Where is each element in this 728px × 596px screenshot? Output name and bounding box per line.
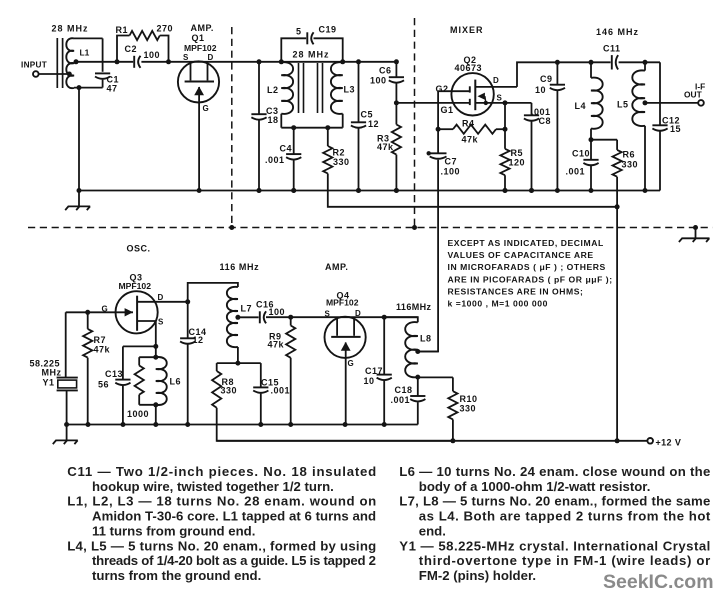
svg-text:11 turns from ground end.: 11 turns from ground end.	[92, 523, 255, 538]
svg-text:MPF102: MPF102	[119, 281, 152, 291]
svg-text:VALUES OF CAPACITANCE ARE: VALUES OF CAPACITANCE ARE	[448, 250, 594, 260]
svg-text:270: 270	[157, 24, 174, 34]
svg-text:C2: C2	[125, 44, 138, 54]
svg-text:330: 330	[221, 386, 238, 396]
svg-text:47k: 47k	[94, 345, 111, 355]
svg-text:MIXER: MIXER	[450, 25, 484, 35]
svg-text:.100: .100	[441, 167, 461, 177]
svg-text:as L4. Both are tapped 2 turns: as L4. Both are tapped 2 turns from the …	[419, 509, 711, 524]
svg-text:G2: G2	[436, 84, 449, 94]
svg-text:.001: .001	[265, 155, 285, 165]
svg-text:R5: R5	[511, 148, 524, 158]
svg-text:S: S	[183, 53, 189, 62]
svg-text:R2: R2	[333, 148, 346, 158]
svg-text:47k: 47k	[377, 142, 394, 152]
svg-text:C18: C18	[395, 385, 413, 395]
svg-text:330: 330	[622, 160, 639, 170]
svg-text:C19: C19	[319, 25, 337, 35]
svg-text:D: D	[493, 76, 499, 85]
svg-text:Y1: Y1	[43, 378, 55, 388]
svg-text:R4: R4	[462, 119, 475, 129]
svg-text:R1: R1	[116, 25, 129, 35]
svg-text:R7: R7	[94, 335, 107, 345]
svg-text:G1: G1	[441, 105, 454, 115]
svg-text:D: D	[208, 53, 214, 62]
svg-text:C11: C11	[603, 44, 621, 54]
svg-text:D: D	[355, 309, 361, 318]
svg-text:C17: C17	[365, 366, 383, 376]
svg-text:+12 V: +12 V	[656, 438, 682, 448]
svg-text:.001: .001	[271, 386, 291, 396]
svg-text:C4: C4	[280, 144, 293, 154]
svg-text:L7: L7	[241, 304, 253, 314]
svg-text:L3: L3	[344, 85, 356, 95]
svg-text:ARE IN PICOFARADS ( pF OR: ARE IN PICOFARADS ( pF OR μμF );	[448, 274, 613, 284]
svg-text:116MHz: 116MHz	[396, 302, 432, 312]
svg-text:120: 120	[509, 158, 526, 168]
svg-text:RESISTANCES ARE IN OHMS;: RESISTANCES ARE IN OHMS;	[448, 286, 584, 296]
svg-text:threads of 1/4-20 bolt as a gu: threads of 1/4-20 bolt as a guide. L5 is…	[92, 553, 376, 568]
svg-text:116 MHz: 116 MHz	[220, 262, 260, 272]
svg-text:Q1: Q1	[192, 33, 205, 43]
svg-text:15: 15	[670, 124, 681, 134]
svg-text:OUT: OUT	[684, 90, 703, 100]
svg-text:5: 5	[296, 27, 302, 37]
svg-text:1000: 1000	[127, 409, 149, 419]
svg-text:EXCEPT AS INDICATED, DECIMAL: EXCEPT AS INDICATED, DECIMAL	[448, 238, 604, 248]
svg-text:12: 12	[368, 119, 379, 129]
svg-text:L4, L5 — 5 turns No. 20 enam.,: L4, L5 — 5 turns No. 20 enam., formed by…	[67, 538, 376, 553]
svg-text:47: 47	[107, 84, 118, 94]
svg-text:G: G	[348, 359, 355, 368]
svg-text:MPF102: MPF102	[184, 43, 217, 53]
svg-text:OSC.: OSC.	[127, 244, 151, 254]
svg-text:MPF102: MPF102	[326, 298, 359, 308]
svg-text:L4: L4	[575, 101, 587, 111]
svg-text:k =1000 , M=1 000 000: k =1000 , M=1 000 000	[448, 299, 548, 309]
svg-text:third-overtone type in FM-1 (w: third-overtone type in FM-1 (wire leads)…	[419, 553, 710, 568]
svg-text:end.: end.	[419, 523, 446, 538]
svg-text:INPUT: INPUT	[21, 61, 47, 70]
svg-text:MHz: MHz	[42, 368, 62, 378]
svg-text:C7: C7	[445, 157, 458, 167]
svg-text:18: 18	[268, 115, 279, 125]
svg-text:330: 330	[333, 157, 350, 167]
svg-text:C11 — Two 1/2-inch pieces. No.: C11 — Two 1/2-inch pieces. No. 18 insula…	[67, 464, 376, 479]
svg-text:40673: 40673	[455, 63, 483, 73]
svg-text:12: 12	[193, 335, 204, 345]
svg-text:turns from the ground end.: turns from the ground end.	[92, 568, 261, 583]
svg-text:.001: .001	[391, 395, 411, 405]
svg-text:S: S	[497, 94, 503, 103]
svg-text:L7, L8 — 5 turns No. 20 enam.,: L7, L8 — 5 turns No. 20 enam., formed th…	[399, 494, 710, 509]
svg-text:R10: R10	[460, 394, 478, 404]
svg-text:AMP.: AMP.	[191, 23, 214, 33]
svg-text:L5: L5	[617, 100, 629, 110]
svg-text:L1, L2, L3 — 18 turns No. 28 e: L1, L2, L3 — 18 turns No. 28 enam. wound…	[67, 494, 376, 509]
svg-text:C6: C6	[379, 66, 392, 76]
svg-text:10: 10	[364, 376, 375, 386]
svg-text:hookup wire, twisted together: hookup wire, twisted together 1/2 turn.	[92, 479, 334, 494]
svg-text:S: S	[158, 318, 164, 327]
svg-text:C10: C10	[572, 149, 590, 159]
svg-text:body of a 1000-ohm 1/2-watt re: body of a 1000-ohm 1/2-watt resistor.	[419, 479, 651, 494]
svg-text:R6: R6	[623, 150, 636, 160]
svg-text:10: 10	[535, 85, 546, 95]
svg-text:D: D	[158, 293, 164, 302]
svg-text:C8: C8	[539, 116, 552, 126]
svg-text:L2: L2	[267, 85, 279, 95]
svg-text:28 MHz: 28 MHz	[52, 24, 89, 34]
svg-text:330: 330	[460, 404, 477, 414]
svg-text:100: 100	[269, 307, 286, 317]
svg-text:C9: C9	[540, 74, 553, 84]
svg-text:C13: C13	[105, 369, 123, 379]
svg-text:L8: L8	[420, 334, 432, 344]
svg-text:SeekIC.com: SeekIC.com	[603, 571, 714, 593]
svg-text:Amidon T-30-6 core. L1 tapped: Amidon T-30-6 core. L1 tapped at 6 turns…	[92, 509, 376, 524]
svg-text:100: 100	[370, 76, 387, 86]
svg-text:G: G	[102, 305, 109, 314]
svg-text:G: G	[203, 104, 210, 113]
svg-text:100: 100	[144, 50, 161, 60]
svg-text:56: 56	[98, 380, 109, 390]
svg-text:47k: 47k	[268, 340, 285, 350]
svg-text:FM-2 (pins) holder.: FM-2 (pins) holder.	[419, 568, 536, 583]
svg-text:47k: 47k	[462, 135, 479, 145]
svg-text:146 MHz: 146 MHz	[596, 27, 639, 37]
svg-text:L6: L6	[170, 377, 182, 387]
svg-text:L1: L1	[80, 48, 90, 58]
svg-text:Y1 — 58.225-MHz crystal. Inter: Y1 — 58.225-MHz crystal. International C…	[399, 538, 710, 553]
svg-text:IN MICROFARADS ( μF ) ; OTHER: IN MICROFARADS ( μF ) ; OTHERS	[448, 262, 606, 272]
svg-text:AMP.: AMP.	[325, 262, 348, 272]
svg-text:S: S	[325, 310, 331, 319]
svg-text:28 MHz: 28 MHz	[293, 50, 330, 60]
svg-text:L6 — 10 turns No. 24 enam. clo: L6 — 10 turns No. 24 enam. close wound o…	[399, 464, 710, 479]
svg-text:C5: C5	[361, 110, 374, 120]
svg-text:.001: .001	[566, 167, 586, 177]
